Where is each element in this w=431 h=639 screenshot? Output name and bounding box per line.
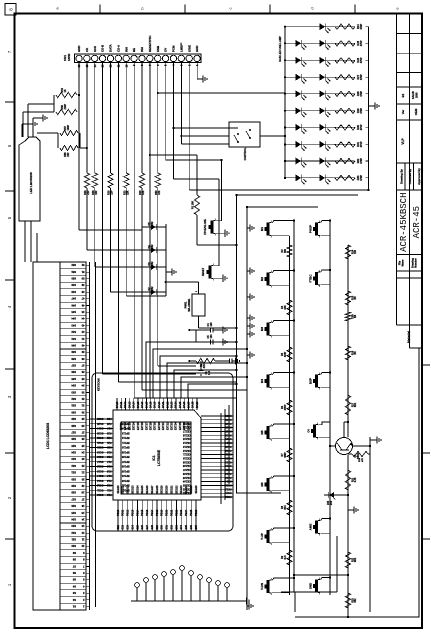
svg-text:CN1: CN1 <box>63 55 67 61</box>
svg-text:K18: K18 <box>106 455 111 458</box>
title block Approved By <box>417 168 421 185</box>
svg-text:SG10: SG10 <box>96 493 103 496</box>
svg-text:S12: S12 <box>71 531 76 535</box>
svg-text:K19: K19 <box>106 450 111 453</box>
svg-text:DA23: DA23 <box>171 401 174 408</box>
resistor P2 10K <box>192 195 200 215</box>
svg-text:KS17: KS17 <box>225 468 232 471</box>
svg-text:OV: OV <box>164 48 168 52</box>
svg-text:SG21: SG21 <box>96 441 103 444</box>
svg-text:152: 152 <box>151 286 154 291</box>
svg-text:S39: S39 <box>71 350 76 354</box>
svg-text:DA15: DA15 <box>137 401 140 408</box>
diode D3 <box>142 261 166 270</box>
svg-text:S23: S23 <box>127 524 130 529</box>
CONTROL box <box>229 122 260 160</box>
svg-text:SEG19: SEG19 <box>161 485 164 494</box>
svg-text:EXT23: EXT23 <box>171 422 174 430</box>
svg-text:S5: S5 <box>72 578 76 582</box>
svg-text:EXT20: EXT20 <box>158 422 161 430</box>
svg-text:S34: S34 <box>71 384 76 388</box>
svg-text:S32: S32 <box>71 397 76 401</box>
svg-text:470P: 470P <box>360 23 363 29</box>
resistor R31 470P <box>335 140 366 148</box>
resistor R27 470P <box>335 73 366 81</box>
svg-text:K14: K14 <box>106 474 111 477</box>
svg-text:DA17: DA17 <box>145 401 148 408</box>
svg-text:470P: 470P <box>360 158 363 164</box>
svg-text:BP113: BP113 <box>121 431 129 434</box>
wire Q1 base <box>329 445 336 447</box>
svg-text:KS19: KS19 <box>225 460 232 463</box>
svg-text:S50: S50 <box>71 277 76 281</box>
IC1 inner pin labels <box>117 422 198 494</box>
svg-text:DA20: DA20 <box>158 401 161 408</box>
svg-text:152: 152 <box>151 221 154 226</box>
svg-text:K16: K16 <box>106 465 111 468</box>
wire bottom border bus <box>295 348 419 618</box>
title block VLP <box>401 138 405 145</box>
svg-text:CE105: CE105 <box>182 476 190 479</box>
svg-text:S33: S33 <box>71 390 76 394</box>
svg-text:680P: 680P <box>285 452 287 458</box>
switch C4 <box>308 422 331 440</box>
ground CN1 pin1 <box>201 75 207 82</box>
svg-text:PD16: PD16 <box>146 509 149 516</box>
LED column 7 <box>284 124 369 134</box>
svg-text:DA29: DA29 <box>196 401 199 408</box>
svg-text:B15: B15 <box>285 505 287 510</box>
svg-text:KS26: KS26 <box>225 433 232 436</box>
svg-text:SEG21: SEG21 <box>170 485 173 494</box>
svg-text:R15: R15 <box>352 295 354 300</box>
svg-text:WA-230M/L: WA-230M/L <box>188 298 191 312</box>
svg-text:K15: K15 <box>106 469 111 472</box>
ground diode rail <box>166 268 176 275</box>
svg-text:SG15: SG15 <box>96 469 103 472</box>
resistor R23 47K in series <box>139 173 145 195</box>
svg-text:T-DN: T-DN <box>260 583 264 590</box>
title block grid <box>396 14 422 348</box>
svg-text:S33: S33 <box>175 524 178 529</box>
resistor R30 470P <box>335 123 366 131</box>
svg-text:DA18: DA18 <box>149 401 152 408</box>
svg-text:KS20: KS20 <box>225 457 232 460</box>
svg-text:47K: 47K <box>142 190 145 195</box>
svg-text:BE: BE <box>132 48 136 52</box>
svg-text:470P: 470P <box>360 124 363 130</box>
test point circles <box>135 566 230 601</box>
svg-text:S32: S32 <box>170 524 173 529</box>
svg-text:55Z: 55Z <box>355 598 357 603</box>
svg-text:P2 10K: P2 10K <box>192 201 195 210</box>
svg-text:470P: 470P <box>360 141 363 147</box>
svg-text:DA26: DA26 <box>183 401 186 408</box>
svg-text:EXT21: EXT21 <box>162 422 165 430</box>
svg-text:S22: S22 <box>122 524 125 529</box>
svg-text:KS10: KS10 <box>225 495 232 498</box>
resistor R7 680P <box>282 448 292 462</box>
svg-text:CE109: CE109 <box>182 460 190 463</box>
svg-text:R22: R22 <box>352 477 354 482</box>
svg-text:KNB: KNB <box>156 46 160 52</box>
wire CONTROL feeds <box>173 127 230 137</box>
wire rail E chain row2 <box>347 245 349 612</box>
wire rail C <box>293 222 295 592</box>
LED column 3 <box>284 57 369 67</box>
svg-text:LCD1 LCD63208: LCD1 LCD63208 <box>46 423 50 449</box>
title block drawing name ACR-45KBSCH <box>399 192 409 251</box>
switch BSP <box>309 372 320 389</box>
svg-text:M5: M5 <box>260 430 264 434</box>
svg-text:S49: S49 <box>71 283 76 287</box>
svg-text:BP103: BP103 <box>121 479 129 482</box>
svg-text:BP112: BP112 <box>121 436 129 439</box>
resistor R5 334P <box>282 347 292 362</box>
svg-text:DA12: DA12 <box>124 401 127 408</box>
svg-text:EXT14: EXT14 <box>133 422 136 430</box>
resistor R1 47K <box>196 358 215 368</box>
switch RESET <box>202 263 213 280</box>
wire M4 legs <box>272 371 295 387</box>
svg-text:SEG16: SEG16 <box>146 485 149 494</box>
svg-text:SG13: SG13 <box>96 479 103 482</box>
svg-text:470P: 470P <box>360 57 363 63</box>
wire SND legs <box>321 576 332 592</box>
svg-text:Drawing By: Drawing By <box>400 169 404 184</box>
svg-text:SCK: SCK <box>93 45 97 52</box>
svg-text:S28: S28 <box>151 524 154 529</box>
LED cathode rail <box>367 27 369 191</box>
svg-text:CE102: CE102 <box>182 487 190 490</box>
svg-text:PD26: PD26 <box>195 509 198 516</box>
svg-text:SG26: SG26 <box>96 417 103 420</box>
svg-text:OEM: OEM <box>414 108 418 115</box>
svg-text:SEG26: SEG26 <box>195 485 198 494</box>
svg-text:S/3/E: S/3/E <box>187 45 191 52</box>
svg-text:Name: Name <box>402 259 405 266</box>
svg-text:DATA: DATA <box>109 43 113 52</box>
svg-text:DA25: DA25 <box>179 401 182 408</box>
svg-text:EXT22: EXT22 <box>166 422 169 430</box>
svg-text:S21: S21 <box>71 471 76 475</box>
svg-text:EXT17: EXT17 <box>145 422 148 430</box>
svg-text:RESET: RESET <box>202 267 205 276</box>
svg-text:PD22: PD22 <box>175 509 178 516</box>
svg-text:GND: GND <box>195 46 199 52</box>
svg-text:PHSP: PHSP <box>309 225 313 233</box>
svg-text:PD10: PD10 <box>117 509 120 516</box>
diode D2 <box>142 286 166 295</box>
svg-text:FTBC: FTBC <box>309 274 313 283</box>
svg-text:S40: S40 <box>71 343 76 347</box>
LED backlight module LBC63208 <box>19 137 40 221</box>
svg-text:CE116: CE116 <box>182 433 190 436</box>
wire caps feed <box>188 329 196 342</box>
wire LBC pins <box>22 118 40 137</box>
svg-text:47K: 47K <box>361 458 364 462</box>
svg-text:S25: S25 <box>136 524 139 529</box>
switch M4 <box>260 372 271 389</box>
svg-text:S27: S27 <box>146 524 149 529</box>
svg-text:S36: S36 <box>71 370 76 374</box>
svg-text:15P: 15P <box>67 152 70 157</box>
svg-text:BP107: BP107 <box>121 460 129 463</box>
svg-text:PD13: PD13 <box>131 509 134 516</box>
svg-text:PD17: PD17 <box>151 509 154 516</box>
svg-text:SEG17: SEG17 <box>151 485 154 494</box>
wire LCD bus lines <box>90 262 96 610</box>
wire PW01 pins <box>165 281 238 329</box>
resistor R3 560 <box>282 245 292 257</box>
resistor R16 B8 row2 <box>345 346 357 360</box>
svg-text:K10: K10 <box>106 493 111 496</box>
svg-text:EXT24: EXT24 <box>175 422 178 430</box>
resistor R23 47K vert <box>348 451 370 462</box>
svg-text:S24: S24 <box>131 524 134 529</box>
svg-text:INH: INH <box>124 47 128 52</box>
IC1 right pins <box>117 398 197 410</box>
IC1 left pin labels <box>117 509 198 529</box>
svg-text:S27: S27 <box>71 430 76 434</box>
connector CN1 refdes <box>63 54 71 61</box>
svg-text:K22: K22 <box>106 436 111 439</box>
svg-text:S26: S26 <box>71 437 76 441</box>
svg-text:DA13: DA13 <box>128 401 131 408</box>
op-amp U shell IC1 ring <box>113 410 201 500</box>
svg-text:S44: S44 <box>71 317 76 321</box>
resistor R24 470P <box>335 23 366 31</box>
title block B1 <box>401 93 405 97</box>
wire diode rail upper <box>141 224 143 296</box>
wire LBC to LCD <box>25 221 37 262</box>
ground rail B set <box>247 224 254 358</box>
resistor R53 47K in series <box>155 173 161 195</box>
wire T-UP legs <box>272 527 295 543</box>
svg-text:S26: S26 <box>141 524 144 529</box>
svg-text:KS13: KS13 <box>225 484 232 487</box>
svg-text:SEG23: SEG23 <box>180 485 183 494</box>
svg-text:S48: S48 <box>71 290 76 294</box>
LCD1 pin cells <box>60 262 86 610</box>
svg-text:d: d <box>310 7 315 9</box>
zone ticks right <box>100 5 355 14</box>
wire IC to key rails stairs <box>146 341 248 398</box>
svg-text:SG14: SG14 <box>96 474 103 477</box>
svg-text:KS27: KS27 <box>225 430 232 433</box>
svg-text:RESET/DTH: RESET/DTH <box>148 36 152 52</box>
svg-text:SEG18: SEG18 <box>156 485 159 494</box>
svg-text:D59: D59 <box>352 314 354 319</box>
wire rail A <box>237 195 282 493</box>
svg-text:R16: R16 <box>352 350 354 355</box>
wire diode rail lower <box>165 224 167 296</box>
title block drawing number ACR-45 <box>412 206 422 238</box>
svg-text:PD11: PD11 <box>122 509 125 516</box>
svg-text:Checked By: Checked By <box>408 168 412 184</box>
svg-text:47BP: 47BP <box>284 404 287 410</box>
svg-text:BP111: BP111 <box>122 441 130 444</box>
svg-text:S1: S1 <box>72 604 76 608</box>
module PW01 WA-230M/L <box>185 294 206 316</box>
wire CONTROL to LED rail <box>260 135 286 137</box>
svg-text:PD20: PD20 <box>166 509 169 516</box>
LED column 6 <box>284 107 369 117</box>
svg-text:SG23: SG23 <box>96 431 103 434</box>
svg-text:S41: S41 <box>71 337 76 341</box>
svg-text:DA28: DA28 <box>192 401 195 408</box>
svg-text:KS16: KS16 <box>225 472 232 475</box>
svg-text:BP105: BP105 <box>121 469 129 472</box>
IC1 right pin labels <box>116 401 199 408</box>
CONTROL contacts <box>229 128 251 143</box>
svg-text:VLP: VLP <box>401 138 405 145</box>
svg-text:R17: R17 <box>352 402 354 407</box>
svg-text:PD12: PD12 <box>127 509 130 516</box>
svg-text:R10: R10 <box>352 598 354 603</box>
svg-text:6R2: 6R2 <box>355 402 357 407</box>
svg-text:DA19: DA19 <box>154 401 157 408</box>
IC1 bottom bus ladder <box>221 405 229 504</box>
svg-text:S24: S24 <box>71 451 76 455</box>
svg-text:S28: S28 <box>71 424 76 428</box>
svg-text:PD25: PD25 <box>190 509 193 516</box>
connector CN1 body <box>75 54 202 63</box>
svg-text:PD21: PD21 <box>170 509 173 516</box>
svg-text:KS29: KS29 <box>225 422 232 425</box>
svg-text:S35: S35 <box>71 377 76 381</box>
svg-text:S43: S43 <box>71 323 76 327</box>
svg-text:CE115: CE115 <box>182 437 190 440</box>
svg-text:S22: S22 <box>71 464 76 468</box>
svg-text:KS30: KS30 <box>225 418 232 421</box>
svg-text:SG22: SG22 <box>96 436 103 439</box>
ground XTAL <box>221 230 229 237</box>
wire Q1 emitter <box>353 445 372 447</box>
wire rail F <box>369 437 371 612</box>
svg-text:CE104: CE104 <box>182 480 190 483</box>
svg-text:16PIN: 16PIN <box>67 54 71 61</box>
diode D5 <box>142 221 166 230</box>
LCD1 module body <box>33 262 60 610</box>
key scan area label <box>97 378 101 391</box>
svg-text:47K: 47K <box>203 364 206 369</box>
svg-text:XTCE/VLOZE: XTCE/VLOZE <box>204 219 207 235</box>
svg-text:ACR-45: ACR-45 <box>412 206 422 238</box>
svg-text:103: 103 <box>210 322 213 327</box>
svg-text:S38: S38 <box>71 357 76 361</box>
LED column 1 <box>284 23 369 33</box>
svg-text:SG25: SG25 <box>96 422 103 425</box>
svg-text:22P: 22P <box>87 190 90 195</box>
svg-text:CONTROL: CONTROL <box>243 147 247 160</box>
svg-text:M2: M2 <box>260 277 264 281</box>
switch PHSP <box>309 220 320 237</box>
svg-text:SEG10: SEG10 <box>117 485 120 494</box>
svg-text:CE107: CE107 <box>182 468 190 471</box>
svg-text:KS11: KS11 <box>225 491 232 494</box>
svg-text:EXT12: EXT12 <box>124 422 127 430</box>
svg-text:S7: S7 <box>72 564 76 568</box>
switch M3 <box>260 320 271 337</box>
LED column 9 <box>284 158 369 168</box>
svg-text:S45: S45 <box>71 310 76 314</box>
svg-text:BP110: BP110 <box>121 446 129 449</box>
svg-text:S13: S13 <box>71 524 76 528</box>
resistor R10 55Z row2 <box>345 593 357 608</box>
wire XTAL <box>216 159 223 233</box>
svg-text:470P: 470P <box>360 175 363 181</box>
resistor R9 9L5 <box>282 550 292 565</box>
svg-text:SND: SND <box>309 582 313 589</box>
svg-text:CE113: CE113 <box>182 445 190 448</box>
ground Q1 <box>370 436 381 443</box>
svg-text:S3: S3 <box>72 591 76 595</box>
svg-text:PD15: PD15 <box>141 509 144 516</box>
wire AMS legs <box>321 517 332 533</box>
switch M5 <box>260 424 271 441</box>
wire right loop verticals <box>235 194 358 208</box>
svg-text:152: 152 <box>151 261 154 266</box>
svg-text:100P: 100P <box>67 125 70 131</box>
svg-text:S37: S37 <box>71 364 76 368</box>
svg-text:EXT15: EXT15 <box>137 422 140 430</box>
svg-text:K21: K21 <box>106 441 111 444</box>
svg-text:R14: R14 <box>351 249 354 254</box>
svg-text:SG12: SG12 <box>96 484 103 487</box>
svg-text:S20: S20 <box>71 477 76 481</box>
svg-text:EXT26: EXT26 <box>183 422 186 430</box>
svg-text:S36: S36 <box>190 524 193 529</box>
resistor D59 B8 row2 <box>345 312 357 321</box>
ground C4 <box>220 326 227 333</box>
svg-text:R11: R11 <box>352 557 354 562</box>
svg-text:KS18: KS18 <box>225 464 232 467</box>
svg-text:S16: S16 <box>71 504 76 508</box>
svg-text:PD18: PD18 <box>156 509 159 516</box>
svg-text:Material: Material <box>407 331 411 343</box>
resistor R22 4.7K row2 <box>345 470 357 490</box>
svg-text:22P: 22P <box>111 190 114 195</box>
title block File Name label <box>399 259 405 266</box>
svg-text:S25: S25 <box>71 444 76 448</box>
switch FTBC <box>309 270 320 287</box>
resistor R28 470P <box>335 90 366 98</box>
LED array label <box>278 36 282 62</box>
svg-text:S17: S17 <box>71 497 76 501</box>
resistor R6 47BP <box>282 400 292 415</box>
svg-text:INH: INH <box>140 47 144 52</box>
svg-text:S52: S52 <box>71 263 76 267</box>
switch XTAL/CLOSE <box>204 218 215 235</box>
svg-text:BP106: BP106 <box>121 465 129 468</box>
resistor R16 22P in series <box>84 173 90 195</box>
resistor R58 15P <box>60 145 78 156</box>
transistor Q1 2SB564 <box>336 438 361 459</box>
svg-text:M4: M4 <box>260 379 264 383</box>
svg-text:CE114: CE114 <box>182 441 190 444</box>
wire FTBC legs <box>321 269 332 285</box>
svg-text:ACR-45KBSCH: ACR-45KBSCH <box>399 192 409 251</box>
switch M2 <box>260 270 271 287</box>
capacitor C1 104 <box>188 360 211 376</box>
svg-text:S51: S51 <box>71 270 76 274</box>
svg-text:PD24: PD24 <box>185 509 188 516</box>
svg-text:S42: S42 <box>71 330 76 334</box>
svg-text:EXT27: EXT27 <box>187 422 190 430</box>
svg-text:BP101: BP101 <box>121 488 129 491</box>
svg-text:SEG20: SEG20 <box>166 485 169 494</box>
